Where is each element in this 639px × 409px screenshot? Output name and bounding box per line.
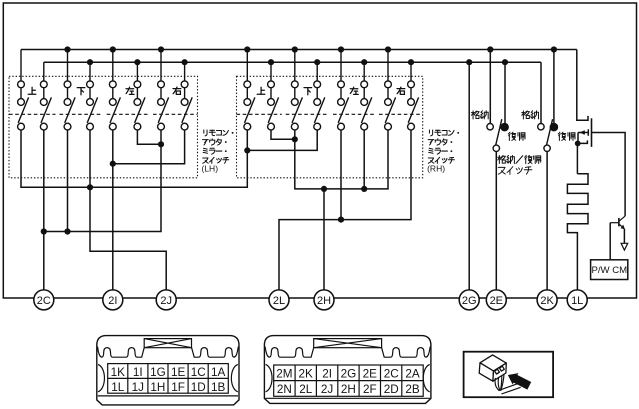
wire: RH col6 leg — [363, 130, 365, 189]
junction dots on RH upper bus — [321, 186, 367, 192]
RH remote outer mirror switch block (dashed boundary) — [237, 76, 423, 178]
wire/net: RH col8 over to terminal 2L — [279, 130, 411, 290]
svg-text:2G: 2G — [462, 295, 477, 307]
connector top profile — [265, 347, 430, 358]
junction dot RH col3 link — [292, 136, 298, 142]
terminal 2C — [34, 290, 54, 310]
svg-text:(RH): (RH) — [427, 164, 445, 174]
svg-text:P/W CM: P/W CM — [591, 265, 627, 276]
switch contact column LH-5 (left+) — [109, 50, 120, 131]
wire: switch 2 common down to terminal 2K — [546, 152, 548, 290]
harness wires — [495, 374, 521, 394]
connector side latches — [266, 364, 430, 391]
svg-text:2K: 2K — [299, 368, 314, 381]
internal link wire RH col4 to col1 — [247, 130, 317, 150]
wire: top bus (feeds odd switch columns, MOSFET drain) — [21, 49, 577, 51]
MOSFET Q1 body lead with arrow — [578, 132, 588, 134]
label: return (switch 2) — [558, 132, 575, 140]
svg-text:1K: 1K — [111, 366, 126, 379]
svg-text:1C: 1C — [191, 366, 206, 379]
label: retract (switch 1) — [471, 111, 488, 119]
connector housing outline — [264, 336, 431, 404]
label DOWN (LH) — [77, 88, 85, 95]
svg-text:2I: 2I — [322, 368, 332, 381]
wire: second bus end down to retract contact of switch 2 — [540, 62, 542, 123]
terminal 2K — [537, 290, 557, 310]
direction arrow — [508, 373, 531, 390]
terminal 2L — [269, 290, 289, 310]
svg-text:1B: 1B — [211, 381, 226, 394]
internal link wire RH col2 to col3 — [271, 130, 295, 139]
connector bottom rib — [98, 395, 238, 397]
switch contact column RH-5 (left+) — [338, 50, 349, 131]
svg-text:1G: 1G — [150, 366, 166, 379]
terminal 2G — [459, 290, 479, 310]
internal link wire LH col8 to col5 — [113, 130, 185, 164]
wire: Q2 base to P/W CM — [609, 223, 611, 260]
switch contact column LH-6 (left-) — [134, 62, 145, 130]
wire: second bus (feeds even switch columns, 2G) — [44, 61, 541, 63]
label DOWN (RH) — [304, 88, 312, 95]
junction dot at MOSFET source node — [575, 141, 581, 147]
wire: RH col5 leg — [340, 130, 342, 220]
wire: switch 1 common down to terminal 2E — [495, 152, 497, 290]
MOSFET Q1 drain lead from top bus — [577, 50, 588, 121]
connector housing outline — [97, 336, 239, 405]
wire: MOSFET gate to transistor Q2 collector — [592, 133, 626, 217]
svg-text:2L: 2L — [299, 383, 313, 396]
connector lock tab — [144, 339, 191, 348]
switch contact column RH-1 (up+) — [244, 50, 255, 131]
junction dots on second bus — [87, 59, 508, 65]
svg-text:2H: 2H — [317, 295, 331, 307]
svg-text:1E: 1E — [171, 366, 186, 379]
junction dot LH col5 link — [110, 161, 116, 167]
svg-text:2E: 2E — [363, 368, 378, 381]
wire/net: LH col7 to col2/col3 bus — [44, 130, 161, 232]
legend box: connector viewed from harness side — [464, 352, 553, 398]
svg-text:2N: 2N — [277, 383, 292, 396]
svg-text:2F: 2F — [363, 383, 377, 396]
connector side latches — [98, 364, 238, 391]
svg-text:2C: 2C — [384, 368, 399, 381]
wire: schematic enclosure box (P/W master switch boundary) — [3, 3, 636, 298]
terminal 2E — [486, 290, 506, 310]
label LEFT (RH) — [350, 87, 358, 94]
wire: second bus to return contact of switch 1 — [504, 62, 506, 126]
switch contact column RH-8 (right-) — [408, 62, 419, 130]
label RIGHT (LH) — [173, 87, 181, 94]
retract/return switch 2 — [538, 119, 558, 151]
connector pin grid — [108, 364, 229, 394]
switch contact column RH-7 (right+) — [385, 50, 396, 131]
switch contact column LH-8 (right-) — [181, 62, 192, 130]
svg-text:2B: 2B — [405, 383, 420, 396]
label: retract (switch 2) — [522, 111, 539, 119]
junction dot bus A at LH col4 — [87, 184, 93, 190]
retract/return switch 1 — [487, 119, 508, 151]
connector top profile — [98, 347, 239, 358]
wire: LH col4 down and over to terminal 2J — [90, 130, 166, 290]
internal link wire LH col6 to col7 — [137, 130, 161, 144]
svg-text:2E: 2E — [490, 295, 503, 307]
wire: LH col2 down to terminal 2C — [43, 130, 45, 290]
svg-text:2L: 2L — [273, 295, 285, 307]
svg-text:1H: 1H — [150, 381, 165, 394]
svg-text:2G: 2G — [341, 368, 357, 381]
switch gang coupling dashed lines (LH) — [9, 113, 198, 115]
switch gang coupling dashed lines (RH) — [237, 113, 423, 115]
label LEFT (LH) — [126, 87, 134, 94]
junction dot LH col7 link — [158, 141, 164, 147]
svg-text:2D: 2D — [384, 383, 399, 396]
connector bottom rib — [265, 397, 430, 399]
svg-text:2J: 2J — [321, 383, 333, 396]
label: retract/return switch — [498, 155, 541, 163]
svg-text:2I: 2I — [108, 295, 117, 307]
transistor Q2 (drive from P/W CM) — [610, 216, 625, 229]
switch contact column LH-3 (down+) — [64, 50, 75, 131]
wire: LH col3 leg — [67, 130, 69, 232]
label: return (switch 1) — [508, 132, 525, 140]
terminal 1L — [567, 290, 587, 310]
MOSFET Q1 source lead — [577, 133, 587, 144]
connector pin grid — [274, 365, 424, 396]
wire: top bus to retract contact of switch 1 — [489, 50, 491, 124]
svg-text:2A: 2A — [405, 368, 420, 381]
junction dot RH bus D at col5 — [338, 217, 344, 223]
switch contact column LH-4 (down-) — [87, 62, 98, 130]
junction dots on LH bus B — [41, 228, 71, 234]
junction dot RH col1 link — [244, 147, 250, 153]
label UP (RH) — [257, 87, 265, 94]
svg-text:1L: 1L — [111, 381, 125, 394]
svg-text:2J: 2J — [160, 295, 172, 307]
LH remote outer mirror switch block (dashed boundary) — [9, 76, 198, 178]
svg-text:1L: 1L — [571, 295, 583, 307]
switch contact column RH-6 (left-) — [361, 62, 372, 130]
label RIGHT (RH) — [397, 87, 405, 94]
wire: top bus to return contact of switch 2 — [553, 50, 555, 127]
resistor R1 (meander) — [567, 174, 588, 290]
svg-text:1D: 1D — [191, 381, 206, 394]
wire: source node down to resistor R1 — [576, 143, 578, 173]
svg-text:2K: 2K — [540, 295, 554, 307]
wire: second bus down to terminal 2G — [468, 62, 470, 290]
terminal 2I — [103, 290, 123, 310]
switch contact column RH-2 (up-) — [268, 62, 279, 130]
switch contact column LH-1 (up+) — [18, 50, 29, 131]
open arrow (circuit continues) — [621, 243, 628, 250]
terminal 2H — [314, 290, 334, 310]
wire/net: LH col1 + LH col4 + RH col1 bus — [21, 130, 247, 187]
switch contact column LH-7 (right+) — [158, 50, 169, 131]
wire: Q2 emitter down to arrow — [623, 229, 625, 243]
label: remote outer mirror switch (RH) — [429, 130, 459, 136]
svg-text:2C: 2C — [37, 295, 51, 307]
terminal 2J — [156, 290, 176, 310]
connector lock tab — [314, 339, 382, 348]
junction dots on top bus — [64, 46, 557, 52]
switch contact column LH-2 (up-) — [40, 62, 51, 130]
svg-text:1A: 1A — [211, 366, 226, 379]
svg-text:(LH): (LH) — [202, 164, 219, 174]
label: remote outer mirror switch (LH) — [204, 130, 234, 136]
svg-text:1F: 1F — [171, 381, 185, 394]
P/W CM control module box — [591, 260, 628, 280]
switch contact column RH-3 (down+) — [291, 50, 302, 131]
wire: LH col5 down to terminal 2I — [112, 130, 114, 290]
svg-text:2H: 2H — [341, 383, 356, 396]
label UP (LH) — [28, 87, 36, 94]
svg-text:1I: 1I — [133, 366, 143, 379]
svg-text:1J: 1J — [132, 381, 144, 394]
wire: leg down to terminal 2H — [323, 189, 325, 290]
switch contact column RH-4 (down-) — [314, 62, 325, 130]
connector body (isometric) — [479, 355, 506, 381]
MOSFET Q1 gate bar — [591, 118, 593, 147]
svg-text:2M: 2M — [276, 368, 292, 381]
wire/net: RH col3 + col6 + col7 bus — [295, 130, 388, 189]
